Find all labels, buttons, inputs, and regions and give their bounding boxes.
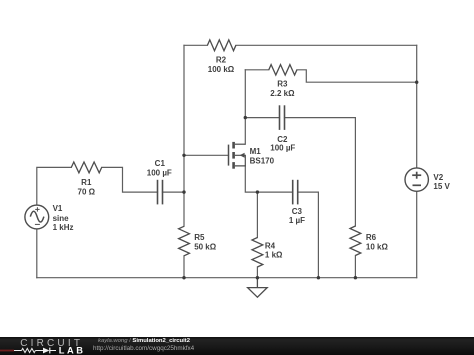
ground xyxy=(256,278,258,288)
transistor M1 xyxy=(229,142,246,169)
logo resistor xyxy=(22,348,36,352)
svg-text:C3: C3 xyxy=(292,207,303,216)
svg-text:BS170: BS170 xyxy=(250,156,275,165)
node drain/C2 xyxy=(244,116,247,119)
wire V2 bottom lead xyxy=(416,191,418,277)
wire R1 to C1 step xyxy=(102,167,158,192)
wire gate lead xyxy=(184,154,229,156)
wire R4 top lead xyxy=(256,192,258,237)
wire C2 left lead xyxy=(245,117,279,119)
wire C2 right to R6 xyxy=(285,118,356,226)
svg-text:R1: R1 xyxy=(81,178,92,187)
node source/R4 xyxy=(256,190,259,193)
node R5/rail xyxy=(182,276,185,279)
svg-text:100 kΩ: 100 kΩ xyxy=(208,65,235,74)
svg-text:1 kHz: 1 kHz xyxy=(53,223,74,232)
resistor R5 xyxy=(179,226,190,256)
footer bar xyxy=(0,337,474,355)
wire source to C3 xyxy=(245,166,292,192)
wire drain column xyxy=(244,70,246,144)
svg-text:V1: V1 xyxy=(53,204,63,213)
wire bottom rail xyxy=(37,277,417,279)
wire R3 right to V2 rail xyxy=(297,70,417,82)
svg-text:sine: sine xyxy=(53,214,70,223)
wire R4 bottom lead xyxy=(256,267,258,278)
node C3/rail xyxy=(317,276,320,279)
svg-text:R4: R4 xyxy=(265,241,276,250)
svg-text:100 µF: 100 µF xyxy=(270,143,295,152)
wire V1 top lead xyxy=(37,167,72,205)
svg-text:2.2 kΩ: 2.2 kΩ xyxy=(270,89,295,98)
node R4/ground rail xyxy=(256,276,259,279)
wire R6 bottom lead xyxy=(354,256,356,278)
svg-text:R5: R5 xyxy=(194,233,205,242)
node R6/rail xyxy=(354,276,357,279)
svg-text:15 V: 15 V xyxy=(433,182,450,191)
logo wire 2 xyxy=(35,350,43,352)
logo red wire xyxy=(0,350,14,352)
svg-text:V2: V2 xyxy=(433,173,443,182)
wire C3 right down to rail xyxy=(298,192,319,278)
resistor R2 xyxy=(207,40,236,51)
svg-text:10 kΩ: 10 kΩ xyxy=(366,243,389,252)
node R3/V2 rail xyxy=(415,81,418,84)
svg-text:50 kΩ: 50 kΩ xyxy=(194,243,217,252)
wire top rail right of R2 xyxy=(236,44,417,46)
svg-text:R3: R3 xyxy=(277,80,288,89)
svg-text:1 µF: 1 µF xyxy=(289,216,305,225)
svg-text:LAB: LAB xyxy=(59,345,86,355)
svg-text:70 Ω: 70 Ω xyxy=(78,187,96,196)
svg-text:R2: R2 xyxy=(216,56,227,65)
wire top rail left of R2 xyxy=(184,44,207,46)
capacitor C3 xyxy=(292,180,294,205)
transistor M1 arrow xyxy=(240,153,245,158)
source V1 xyxy=(25,205,49,229)
svg-text:R6: R6 xyxy=(366,233,377,242)
svg-text:100 µF: 100 µF xyxy=(147,168,172,177)
node gate tap xyxy=(182,154,185,157)
resistor R6 xyxy=(350,226,361,256)
capacitor C2 xyxy=(279,105,281,130)
svg-text:1 kΩ: 1 kΩ xyxy=(265,250,283,259)
resistor R4 xyxy=(252,238,263,268)
logo white wire xyxy=(14,350,22,352)
wire V1 bottom lead xyxy=(36,229,38,278)
resistor R3 xyxy=(269,65,297,75)
source V2 xyxy=(405,168,428,191)
svg-text:C1: C1 xyxy=(155,159,166,168)
wire R5 bottom lead xyxy=(183,256,185,278)
wire gate column xyxy=(183,45,185,226)
wire R3 left lead xyxy=(245,69,268,71)
logo diode xyxy=(43,348,50,354)
wire C1 right lead xyxy=(163,191,185,193)
node C1/R5 xyxy=(182,190,185,193)
wire V2 top lead xyxy=(416,45,418,168)
capacitor C1 xyxy=(157,180,159,205)
resistor R1 xyxy=(71,162,101,173)
svg-text:M1: M1 xyxy=(250,147,262,156)
